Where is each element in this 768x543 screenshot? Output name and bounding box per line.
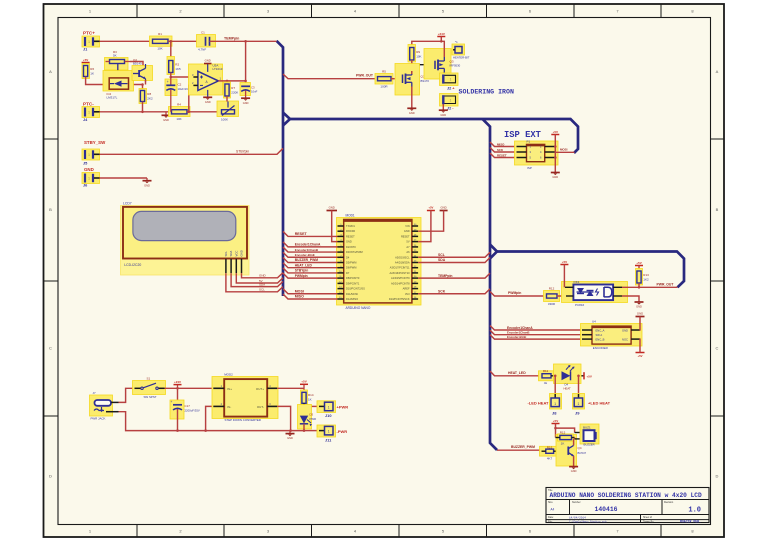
wire net BUZZER_PWM bus to nano xyxy=(283,257,338,262)
wire R9 to Q1 drain node xyxy=(411,60,413,74)
wire J2- to ground xyxy=(442,104,444,110)
svg-text:PWR_OUT: PWR_OUT xyxy=(657,282,675,286)
wire LCD GND to bus xyxy=(242,273,284,278)
wire LCD 5V to bus xyxy=(236,273,283,283)
svg-text:ENC_B: ENC_B xyxy=(596,337,605,341)
wire Q3 gate link xyxy=(412,64,435,66)
wire +5V to opto anode xyxy=(563,265,565,288)
junction R4 right/op-amp xyxy=(188,111,191,114)
junction ISP pin2 xyxy=(554,145,557,148)
transistor Q2 xyxy=(132,58,153,82)
svg-text:1K: 1K xyxy=(308,397,312,401)
svg-text:10K: 10K xyxy=(176,117,181,121)
junction D4 cathode xyxy=(577,375,580,378)
junction collector/PWR_OUT xyxy=(638,286,641,289)
wire R5 to Q1 gate xyxy=(391,78,403,80)
svg-text:D7: D7 xyxy=(346,271,350,275)
svg-text:1K: 1K xyxy=(90,72,94,76)
wire R8 to PTC- rail xyxy=(142,102,144,112)
wire MOD2 OUT- down xyxy=(277,406,290,430)
wire PTC- rail xyxy=(100,111,172,113)
bus: main vertical from TEMPpin xyxy=(277,41,284,296)
resistor R11 xyxy=(539,369,555,385)
wire Encoder1ChanA bus to encoder xyxy=(490,326,582,331)
svg-text:B: B xyxy=(716,207,719,212)
wire ISP RESET from bus xyxy=(490,153,517,158)
svg-text:Revision: Revision xyxy=(664,501,674,504)
svg-text:ENC_A: ENC_A xyxy=(596,328,605,332)
svg-text:GND: GND xyxy=(440,205,446,209)
resistor R12 xyxy=(544,287,560,306)
svg-text:HEAT_LED: HEAT_LED xyxy=(295,263,313,267)
svg-text:2200uF/35V: 2200uF/35V xyxy=(185,408,200,412)
wire net MISO bus to nano xyxy=(283,294,338,299)
wire HEAT_LED bus to R11 xyxy=(490,371,540,376)
svg-text:P1: P1 xyxy=(527,140,531,144)
svg-text:GND: GND xyxy=(409,111,415,115)
svg-text:RX0/D0: RX0/D0 xyxy=(346,229,356,233)
svg-text:MOD2: MOD2 xyxy=(224,373,233,377)
+5V output xyxy=(300,380,308,389)
trimmer R3 xyxy=(105,50,131,71)
ground below Q1 xyxy=(407,108,416,115)
svg-text:RESET: RESET xyxy=(295,232,308,236)
svg-text:4,7NF: 4,7NF xyxy=(198,48,206,52)
svg-text:BUZZER: BUZZER xyxy=(584,443,595,447)
svg-text:GND: GND xyxy=(552,175,558,179)
svg-text:GND: GND xyxy=(259,274,267,278)
wire op-amp output xyxy=(218,80,246,82)
svg-text:A1/D15/PCINT9: A1/D15/PCINT9 xyxy=(391,276,410,280)
wire R15 pins xyxy=(556,437,560,439)
wire BUZZER_PWM from bus xyxy=(497,449,542,451)
svg-text:Number: Number xyxy=(572,501,581,504)
+5V above buzzer xyxy=(552,419,560,424)
svg-text:J8: J8 xyxy=(552,411,557,416)
svg-text:+24V: +24V xyxy=(174,380,181,384)
svg-text:GND: GND xyxy=(571,469,577,473)
svg-text:R1: R1 xyxy=(158,32,162,36)
resistor R16 xyxy=(540,446,557,461)
svg-text:IN+: IN+ xyxy=(227,387,232,391)
wire R13 to collector node xyxy=(638,283,640,287)
wire gnd to nano GND pin xyxy=(418,211,444,232)
svg-text:1.0: 1.0 xyxy=(688,506,701,514)
wire R1 node down to R2 xyxy=(170,41,172,60)
svg-text:PWMpin: PWMpin xyxy=(295,274,308,278)
wire D4 row pin lines xyxy=(551,375,584,377)
svg-text:GND: GND xyxy=(243,101,249,105)
bus: chevron to PWR_OUT spur xyxy=(490,245,497,259)
svg-text:+: + xyxy=(167,80,169,84)
junction Q2/R8 node xyxy=(141,83,144,86)
ground at J6 xyxy=(143,178,152,187)
buzzer BUZ1 xyxy=(580,424,599,444)
svg-text:STBY_SW: STBY_SW xyxy=(84,140,106,145)
svg-text:R8: R8 xyxy=(147,92,151,96)
svg-text:BUZZER_PWM: BUZZER_PWM xyxy=(295,258,319,262)
svg-text:GND: GND xyxy=(636,305,642,309)
wire +PWR to J10 xyxy=(304,405,319,407)
wire net RESET bus to nano xyxy=(283,231,338,236)
wire S1 to MOD2 IN+ xyxy=(165,387,215,389)
wire +5V to nano 5V pin xyxy=(418,211,431,242)
svg-text:LCD-I2C20: LCD-I2C20 xyxy=(124,263,141,267)
wire net MOSI bus to nano xyxy=(283,289,338,294)
svg-text:GND: GND xyxy=(404,229,410,233)
connector J6 (GND) xyxy=(82,173,100,184)
svg-text:R2: R2 xyxy=(175,63,179,67)
svg-text:Size: Size xyxy=(548,501,553,504)
wire Q1 drain up xyxy=(411,71,413,74)
junction rail/R8 xyxy=(141,111,144,114)
svg-text:D8/PCINT0: D8/PCINT0 xyxy=(346,276,360,280)
svg-text:SCK: SCK xyxy=(497,148,504,152)
junction D3/rail xyxy=(303,429,306,432)
svg-text:VIN: VIN xyxy=(405,224,409,228)
svg-text:D12/MISO: D12/MISO xyxy=(346,297,358,301)
wire ISP MISO from bus xyxy=(490,142,517,147)
svg-text:+5V: +5V xyxy=(587,375,592,379)
svg-text:4K7: 4K7 xyxy=(547,457,553,461)
svg-text:A7: A7 xyxy=(406,245,410,249)
svg-text:Q4: Q4 xyxy=(578,446,582,450)
svg-text:RESET: RESET xyxy=(346,234,355,238)
svg-text:RESET: RESET xyxy=(497,153,507,157)
LED D3 PWR xyxy=(298,405,317,430)
svg-text:A5/D19/SCL: A5/D19/SCL xyxy=(395,255,410,259)
svg-text:BUZZER_PWM: BUZZER_PWM xyxy=(511,445,535,449)
svg-text:OUT-: OUT- xyxy=(257,405,264,409)
resistor R7 xyxy=(224,82,239,98)
svg-text:PTC-: PTC- xyxy=(83,101,94,106)
svg-text:Encoder1ChanB: Encoder1ChanB xyxy=(295,248,319,252)
connector J7 power jack xyxy=(90,391,119,421)
svg-text:STBYpin: STBYpin xyxy=(295,269,309,273)
wire opto collector xyxy=(622,286,639,288)
wire net SCL nano to bus xyxy=(418,252,490,257)
svg-text:R11: R11 xyxy=(543,369,549,373)
wire buzzer pin2/collector node xyxy=(574,438,576,439)
wire Q2 emitter down to rail xyxy=(145,80,147,85)
svg-text:GND: GND xyxy=(637,312,643,316)
wire op-amp -in drop xyxy=(189,85,194,111)
svg-text:HEATER-BIT: HEATER-BIT xyxy=(453,56,470,60)
svg-text:+5V: +5V xyxy=(301,380,306,384)
part U$1 HEATER-BIT xyxy=(452,40,470,60)
svg-text:C1: C1 xyxy=(201,31,205,35)
wire +5V to R13 xyxy=(638,266,640,272)
svg-text:J10: J10 xyxy=(325,413,332,418)
svg-text:3V3: 3V3 xyxy=(405,292,410,296)
svg-text:1: 1 xyxy=(88,177,90,181)
svg-text:D: D xyxy=(716,474,719,479)
optocoupler OK1 PC816 xyxy=(562,282,628,303)
svg-text:TEMPpin: TEMPpin xyxy=(224,36,239,40)
wire Q3 source up xyxy=(441,41,444,57)
gnd above encoder xyxy=(636,312,645,317)
svg-text:MOSI: MOSI xyxy=(560,148,568,152)
svg-text:GND: GND xyxy=(144,183,150,187)
svg-text:R15: R15 xyxy=(560,431,566,435)
transistor Q4 BC547 xyxy=(556,435,577,467)
connector J5 (STBY_SW) xyxy=(82,149,100,160)
wire Encoder-BtnE bus to encoder xyxy=(490,335,582,340)
wire net Encoder1ChanA bus to nano xyxy=(283,242,338,247)
svg-text:MOACIR PER.: MOACIR PER. xyxy=(680,520,701,524)
svg-text:PTC+: PTC+ xyxy=(83,31,95,36)
capacitor C17 xyxy=(170,400,200,431)
wire TEMPpin: R1 to C1 xyxy=(168,40,205,42)
svg-text:LT1013: LT1013 xyxy=(213,67,223,71)
svg-text:D11/MOSI: D11/MOSI xyxy=(346,292,358,296)
svg-text:R14: R14 xyxy=(308,393,314,397)
junction TEMPpin/C3 drop xyxy=(244,40,247,43)
op-amp U5A LT1013 xyxy=(189,64,223,98)
connector J2- (iron heater -) xyxy=(440,94,459,107)
wire +5V stem to R15 xyxy=(555,424,557,438)
resistor R14 xyxy=(301,390,314,405)
svg-text:R13: R13 xyxy=(643,273,649,277)
svg-text:R5: R5 xyxy=(382,70,386,74)
wire MOSI ISP to bus xyxy=(555,151,575,153)
svg-text:10K: 10K xyxy=(157,47,162,51)
resistor R2 xyxy=(167,57,181,75)
svg-text:PC816: PC816 xyxy=(575,303,585,307)
wire encoder pin to gnd xyxy=(639,317,642,331)
junction output/C3 drop xyxy=(244,80,247,83)
wire PWR_OUT from bus to R5 xyxy=(283,74,377,79)
wire Q3 drain to J2+ xyxy=(442,73,444,76)
ground below op-amp xyxy=(203,97,212,104)
svg-text:+PWR: +PWR xyxy=(337,405,349,410)
bus: right vertical drop xyxy=(483,119,498,450)
svg-text:A: A xyxy=(49,69,52,74)
svg-text:D: D xyxy=(49,474,52,479)
svg-text:+5V: +5V xyxy=(83,58,88,62)
svg-text:*1: *1 xyxy=(455,40,458,44)
capacitor C2 (electrolytic) xyxy=(165,77,188,112)
wire net Encoder-BtnE bus to nano xyxy=(283,252,338,257)
+5V symbol above nano xyxy=(427,205,435,210)
svg-text:R7: R7 xyxy=(231,86,235,90)
svg-text:MOD1: MOD1 xyxy=(346,214,355,218)
svg-text:ARDUINO NANO SOLDERING STATION: ARDUINO NANO SOLDERING STATION w 4x20 LC… xyxy=(550,492,703,499)
svg-text:SCL: SCL xyxy=(259,288,265,292)
regulator IC2 LM317L xyxy=(103,71,134,100)
connector J1 (PTC+) xyxy=(82,36,100,47)
svg-text:1: 1 xyxy=(450,98,452,102)
IC MOD1 Arduino Nano xyxy=(337,218,422,306)
svg-text:10nF: 10nF xyxy=(251,90,258,94)
svg-text:330R: 330R xyxy=(548,302,556,306)
svg-text:+: + xyxy=(171,400,173,404)
svg-text:+5V: +5V xyxy=(637,354,642,358)
resistor R5 xyxy=(375,70,393,89)
junction +24V/Q3 source xyxy=(440,40,443,43)
+5V at ISP xyxy=(551,130,559,135)
wire cathode to J9 xyxy=(578,376,580,394)
svg-text:SCL: SCL xyxy=(224,251,228,257)
svg-text:MOSI: MOSI xyxy=(295,289,304,293)
svg-text:1K2: 1K2 xyxy=(643,278,649,282)
connector J2+ (iron heater +) xyxy=(440,73,459,86)
svg-text:+5V: +5V xyxy=(636,261,641,265)
module MOD2 step-down converter xyxy=(212,377,278,419)
svg-text:+5V: +5V xyxy=(553,419,558,423)
wire +5V node to R14 xyxy=(303,388,305,392)
svg-text:SW A: SW A xyxy=(596,333,603,337)
svg-text:C: C xyxy=(49,346,52,351)
LCD module outline xyxy=(121,206,250,276)
svg-text:D13/PCINT5/SCK: D13/PCINT5/SCK xyxy=(389,297,410,301)
capacitor C1 (series) xyxy=(197,31,216,52)
svg-text:D6/PWM: D6/PWM xyxy=(346,266,356,270)
svg-text:NOC: NOC xyxy=(622,337,628,341)
svg-text:GND: GND xyxy=(440,113,446,117)
ground below opto xyxy=(635,302,644,309)
wire net HEAT_LED bus to nano xyxy=(283,263,338,268)
svg-text:HEAT_LED: HEAT_LED xyxy=(508,371,526,375)
svg-text:A0/D14/PCINT8: A0/D14/PCINT8 xyxy=(391,281,410,285)
svg-text:MISO: MISO xyxy=(497,142,505,146)
LED D4 HEAT xyxy=(554,364,582,384)
connector J11 (-PWR) xyxy=(317,425,336,437)
junction +5V/upper path xyxy=(554,427,557,430)
wire Encoder1ChanB bus to encoder xyxy=(490,330,582,335)
svg-text:OUT+: OUT+ xyxy=(256,387,264,391)
svg-text:GND: GND xyxy=(205,59,211,63)
ground below C3 xyxy=(241,98,250,105)
svg-text:C17: C17 xyxy=(185,404,191,408)
svg-text:GND: GND xyxy=(205,100,211,104)
wire LCD SDA to bus xyxy=(231,273,283,287)
svg-text:GND: GND xyxy=(163,118,169,122)
svg-text:D5/PWM: D5/PWM xyxy=(346,261,356,265)
svg-text:-LED HEAT: -LED HEAT xyxy=(527,400,549,405)
junction OUT-/rail xyxy=(289,429,292,432)
svg-text:140416: 140416 xyxy=(594,506,617,513)
svg-text:100R: 100R xyxy=(380,84,388,88)
svg-text:S1: S1 xyxy=(147,377,151,381)
junction IN-/rail xyxy=(204,429,207,432)
svg-text:PWR: PWR xyxy=(310,417,317,421)
svg-text:SDA: SDA xyxy=(259,282,265,286)
svg-text:B: B xyxy=(49,207,52,212)
svg-text:A3/D17/PCINT11: A3/D17/PCINT11 xyxy=(390,266,410,270)
+5V above R13 xyxy=(635,261,643,266)
svg-text:1K5: 1K5 xyxy=(175,67,181,71)
wire rail to J11 xyxy=(304,430,319,432)
wire MOD2 IN- to rail xyxy=(206,406,214,430)
label J2+ xyxy=(447,85,455,90)
connector J10 (+PWR) xyxy=(317,401,336,413)
wire R2 to op-amp +in xyxy=(171,73,194,78)
wire R3 left drop xyxy=(105,62,107,85)
svg-text:+5V: +5V xyxy=(562,260,567,264)
junction R14/J10 xyxy=(303,405,306,408)
svg-text:STBYpin: STBYpin xyxy=(236,149,249,153)
wire gnd to nano pin4 xyxy=(332,211,338,242)
wire ISP SCK from bus xyxy=(490,148,517,153)
svg-text:AREF: AREF xyxy=(403,287,410,291)
svg-text:2K2: 2K2 xyxy=(147,97,153,101)
bus: branch chevron to top horizontal xyxy=(283,113,290,126)
svg-text:SCL: SCL xyxy=(438,253,445,257)
svg-text:5V: 5V xyxy=(406,240,409,244)
svg-text:ENCODER: ENCODER xyxy=(593,346,609,350)
wire net Encoder1ChanB bus to nano xyxy=(283,247,338,252)
svg-text:SDA: SDA xyxy=(229,251,233,257)
wire TEMPpin: J1 to R1 xyxy=(100,40,151,42)
svg-text:J7: J7 xyxy=(93,391,96,395)
wire J6 to ground xyxy=(100,177,148,179)
svg-text:Sheet of: Sheet of xyxy=(643,516,652,519)
resistor R15 xyxy=(558,431,574,446)
svg-text:A2/D16/PCINT10: A2/D16/PCINT10 xyxy=(390,271,411,275)
resistor R1 xyxy=(150,32,173,51)
svg-text:1: 1 xyxy=(554,402,556,406)
wire TEMPpin: C1 to bus xyxy=(210,40,277,42)
connector J9 (+LED HEAT) xyxy=(573,394,585,410)
wire Q3 gate drop xyxy=(434,64,436,66)
svg-text:SW SPST: SW SPST xyxy=(144,395,157,399)
+24V supply xyxy=(437,32,445,37)
svg-text:J11: J11 xyxy=(325,437,332,442)
svg-text:SCK: SCK xyxy=(438,289,446,293)
ground at DC-DC xyxy=(286,431,295,441)
wire R6 to LM317 rail xyxy=(86,77,143,85)
svg-text:A: A xyxy=(716,69,719,74)
wire R16 pins xyxy=(542,450,546,452)
svg-text:Encoder-BtnE: Encoder-BtnE xyxy=(295,253,315,257)
svg-text:ISP EXT: ISP EXT xyxy=(504,130,542,140)
+5V supply (analog) xyxy=(82,58,90,63)
wire PWMpin bus to R12 xyxy=(490,292,544,297)
svg-text:J9: J9 xyxy=(575,411,580,416)
svg-text:R16: R16 xyxy=(547,446,553,450)
svg-text:+5V: +5V xyxy=(428,205,433,209)
svg-text:A4: A4 xyxy=(551,508,555,512)
svg-text:220K: 220K xyxy=(231,91,238,95)
svg-text:BS170: BS170 xyxy=(421,79,430,83)
svg-text:R4: R4 xyxy=(177,103,181,107)
gnd symbol above nano right xyxy=(440,205,448,210)
svg-text:MISO: MISO xyxy=(295,295,304,299)
svg-text:PWMpin: PWMpin xyxy=(508,291,521,295)
gnd bar above op-amp xyxy=(204,59,212,64)
bus: PWR_OUT spur horizontal+drop xyxy=(496,252,684,288)
svg-text:PWR JACK: PWR JACK xyxy=(91,417,106,421)
title block grid xyxy=(546,488,709,524)
label J2- xyxy=(447,106,454,111)
svg-text:Encoder1ChanA: Encoder1ChanA xyxy=(295,243,321,247)
svg-text:LCD7: LCD7 xyxy=(123,202,132,206)
svg-text:IRF9530: IRF9530 xyxy=(450,63,461,67)
trimmer pot 100K xyxy=(217,101,239,122)
svg-text:HEAT: HEAT xyxy=(564,386,572,390)
svg-text:U4: U4 xyxy=(592,320,596,324)
svg-text:Encoder1ChanA: Encoder1ChanA xyxy=(507,326,533,330)
resistor R9 xyxy=(408,45,422,63)
svg-text:ISP: ISP xyxy=(527,166,532,170)
wire R4 to pot xyxy=(187,111,221,113)
svg-text:A4/D18/SDA: A4/D18/SDA xyxy=(395,261,410,265)
svg-text:Encoder1ChanB: Encoder1ChanB xyxy=(507,331,530,335)
connector J8 (-LED HEAT) xyxy=(550,394,562,410)
svg-text:1: 1 xyxy=(328,430,330,434)
junction R1/R2 xyxy=(170,40,173,43)
